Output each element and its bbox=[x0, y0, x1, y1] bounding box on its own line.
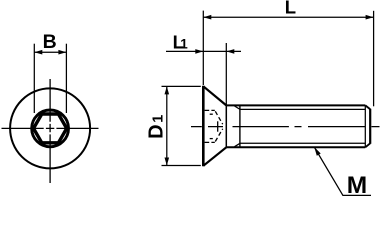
B extension line left bbox=[33, 44, 35, 113]
L1 dimension line bbox=[166, 50, 241, 52]
D1 arrow top bbox=[165, 86, 170, 94]
head cone bottom edge bbox=[203, 147, 226, 166]
M leader line bbox=[314, 147, 371, 196]
D1 extension line top bbox=[162, 85, 201, 87]
svg-text:L: L bbox=[285, 0, 296, 17]
L1 arrow right bbox=[226, 49, 234, 54]
thread runout slant top bbox=[235, 106, 241, 109]
label D1 bbox=[145, 115, 167, 139]
thread minor line bottom bbox=[240, 142, 365, 144]
left view: horizontal centerline bbox=[2, 127, 99, 129]
L extension line left bbox=[202, 11, 204, 85]
D1 dimension line bbox=[166, 86, 168, 165]
hidden socket inner dash bottom bbox=[210, 138, 213, 140]
B extension line right bbox=[65, 44, 67, 113]
L1 extension line right bbox=[225, 43, 227, 105]
thread minor line top bbox=[240, 108, 365, 110]
svg-text:1: 1 bbox=[151, 115, 167, 123]
end face bbox=[369, 109, 371, 144]
shank top outer bbox=[226, 104, 365, 106]
hidden socket line bottom bbox=[205, 141, 215, 143]
L1 arrow left bbox=[195, 49, 203, 54]
hidden socket cone top bbox=[215, 111, 222, 124]
L extension line right bbox=[373, 11, 375, 107]
head left face bbox=[202, 86, 205, 166]
chamfer slant top bbox=[365, 105, 370, 109]
hidden socket inner dash top bbox=[210, 113, 213, 115]
B arrow right bbox=[58, 50, 66, 55]
L arrow left bbox=[203, 15, 211, 20]
B dimension line bbox=[34, 51, 66, 53]
B arrow left bbox=[34, 50, 42, 55]
chamfer start line bbox=[364, 105, 366, 147]
outer circle (head diameter) bbox=[10, 88, 90, 168]
svg-text:M: M bbox=[347, 172, 367, 199]
hidden socket cone bottom bbox=[215, 129, 222, 142]
L arrow right bbox=[366, 15, 374, 20]
chamfer slant bottom bbox=[365, 143, 370, 147]
D1 extension line bottom bbox=[162, 165, 201, 167]
D1 arrow bottom bbox=[165, 158, 170, 166]
head socket centerline tick bbox=[217, 121, 219, 131]
cone-shank junction bbox=[225, 105, 227, 147]
head cone top edge bbox=[203, 86, 226, 105]
svg-text:D: D bbox=[145, 124, 167, 138]
thread runout slant bottom bbox=[235, 143, 241, 146]
thread runout vertical bbox=[239, 105, 241, 147]
shank bottom outer bbox=[226, 146, 365, 148]
svg-text:1: 1 bbox=[180, 37, 188, 52]
left view: vertical centerline bbox=[49, 79, 51, 183]
hidden socket line top bbox=[205, 109, 215, 111]
M leader arrow bbox=[314, 147, 321, 156]
hex socket bbox=[34, 114, 67, 143]
L dimension line bbox=[203, 16, 373, 18]
side view: centerline bbox=[191, 126, 380, 128]
inner circle (socket chamfer) bbox=[32, 110, 69, 147]
svg-text:B: B bbox=[43, 31, 57, 53]
